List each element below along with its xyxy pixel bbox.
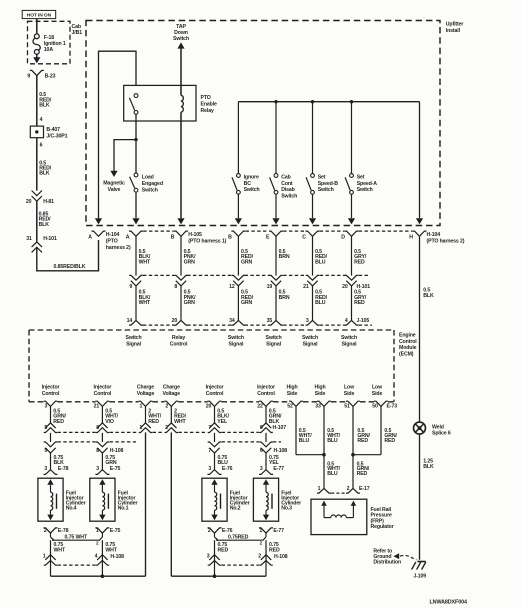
- charge voltage wires down to buses: [145, 432, 147, 576]
- wires ECM pins to H-107 connector: [50, 406, 52, 423]
- svg-text:BLU: BLU: [315, 300, 326, 306]
- svg-text:Cab: Cab: [281, 175, 290, 181]
- svg-text:BLU: BLU: [315, 259, 326, 265]
- svg-text:3: 3: [45, 404, 48, 410]
- svg-text:9: 9: [27, 74, 30, 80]
- svg-text:31: 31: [26, 236, 32, 242]
- svg-text:4: 4: [40, 117, 43, 123]
- low side merge jumper: [353, 454, 381, 456]
- junction on bus: [311, 100, 314, 103]
- wire relay contact to H-104 pin A (left drop): [99, 51, 137, 218]
- svg-text:J-109: J-109: [413, 573, 426, 579]
- inline connector pin 21: [306, 275, 320, 280]
- wire branch to magnetic valve: [114, 140, 136, 171]
- svg-text:Relay: Relay: [201, 108, 214, 114]
- connector E-17 pins 1 and 2: [317, 488, 331, 493]
- svg-text:RED: RED: [53, 419, 64, 425]
- weld splice 6: [414, 422, 426, 434]
- svg-text:7: 7: [208, 425, 211, 431]
- svg-text:Switch: Switch: [228, 335, 244, 341]
- connector E-17 dash: [331, 492, 346, 494]
- wires H-108 to injector connectors: [50, 453, 52, 470]
- svg-text:High: High: [314, 385, 325, 391]
- svg-text:BLK: BLK: [39, 103, 50, 109]
- svg-text:B: B: [228, 234, 232, 240]
- svg-text:7: 7: [208, 448, 211, 454]
- svg-text:5: 5: [44, 425, 47, 431]
- svg-text:GRN: GRN: [241, 300, 253, 306]
- svg-text:22: 22: [257, 404, 263, 410]
- wire relay switch to junction: [135, 114, 137, 173]
- fuel injector No.2 internals: [211, 479, 217, 485]
- svg-text:33: 33: [315, 404, 321, 410]
- svg-text:Speed-A: Speed-A: [357, 181, 378, 187]
- relay coil: [181, 95, 183, 112]
- connector H-108 dashes: [58, 441, 96, 443]
- Fuel Rail Pressure FRP Regulator box: [311, 499, 367, 534]
- Set Speed-B Switch: [311, 174, 315, 178]
- svg-text:6: 6: [260, 425, 263, 431]
- wire B-23 down to B-407: [36, 76, 38, 127]
- svg-text:Engaged: Engaged: [142, 181, 163, 187]
- connector pin A at x=136.0: [129, 231, 143, 236]
- svg-text:Control: Control: [257, 391, 275, 397]
- svg-text:GRN: GRN: [184, 259, 196, 265]
- arrow into connector: [272, 218, 279, 224]
- dashed pointer to ground wire: [400, 556, 417, 560]
- svg-text:BLU: BLU: [327, 471, 338, 477]
- svg-text:Weld: Weld: [432, 424, 444, 430]
- arrow to magnetic valve: [110, 171, 117, 177]
- svg-text:H-105: H-105: [188, 232, 202, 238]
- svg-text:BLK: BLK: [423, 464, 434, 470]
- svg-text:BLK: BLK: [423, 293, 434, 299]
- svg-text:Switch: Switch: [173, 36, 189, 42]
- svg-text:4: 4: [95, 553, 98, 559]
- connector H-107 chevrons: [45, 423, 55, 428]
- connector pin A at x=98.5: [92, 231, 106, 236]
- svg-text:Control: Control: [42, 391, 60, 397]
- svg-text:GRN: GRN: [241, 259, 253, 265]
- svg-text:Control: Control: [170, 342, 188, 348]
- svg-text:HOT IN ON: HOT IN ON: [27, 12, 52, 18]
- arrow into connector: [309, 218, 316, 224]
- svg-text:Disab: Disab: [281, 187, 295, 193]
- svg-text:Injector: Injector: [257, 385, 275, 391]
- svg-text:RED: RED: [148, 419, 159, 425]
- svg-text:E-77: E-77: [273, 528, 284, 534]
- svg-text:YEL: YEL: [217, 419, 228, 425]
- svg-text:10A: 10A: [44, 47, 54, 53]
- svg-text:E-78: E-78: [58, 528, 69, 534]
- injector connectors top: [44, 470, 58, 475]
- svg-text:52: 52: [287, 404, 293, 410]
- svg-text:Module: Module: [399, 345, 417, 351]
- svg-text:2: 2: [347, 486, 350, 492]
- svg-text:0.75RED: 0.75RED: [228, 535, 249, 541]
- svg-text:2: 2: [165, 404, 168, 410]
- inline connector pin 19: [269, 275, 283, 280]
- wire down and right to H-104 pin A: [37, 240, 99, 271]
- svg-text:H: H: [409, 234, 413, 240]
- svg-text:Low: Low: [344, 385, 355, 391]
- inline connector pin 9: [129, 275, 143, 280]
- fuel injector cylinder No.3 box: [253, 478, 278, 521]
- svg-text:J-105: J-105: [357, 318, 370, 324]
- connector body dashes row 275: [143, 274, 174, 276]
- svg-text:Charge: Charge: [137, 385, 154, 391]
- svg-text:H-101: H-101: [43, 236, 57, 242]
- svg-text:Switch: Switch: [302, 335, 318, 341]
- svg-text:H-81: H-81: [43, 199, 54, 205]
- injector ground bus group 2: [171, 575, 266, 577]
- connector H-107 dashes: [58, 431, 96, 433]
- connector pin B at x=181.0: [174, 231, 188, 236]
- svg-text:3: 3: [260, 466, 263, 472]
- svg-text:21: 21: [303, 284, 309, 290]
- svg-text:8: 8: [96, 448, 99, 454]
- svg-text:BLK: BLK: [39, 222, 50, 228]
- connector pin C at x=312.5: [306, 231, 320, 236]
- svg-text:No.1: No.1: [118, 506, 129, 512]
- connector H-108 chevrons: [50, 433, 52, 442]
- wire relay coil to H-105 pin B: [180, 112, 182, 218]
- Ignore BC Switch: [237, 174, 241, 178]
- svg-text:14: 14: [127, 318, 133, 324]
- svg-text:1: 1: [259, 528, 262, 534]
- inline connector pin 12: [232, 275, 246, 280]
- svg-text:Side: Side: [372, 391, 383, 397]
- junction at magnetic valve branch: [134, 138, 137, 141]
- junction on bus: [350, 100, 353, 103]
- svg-text:WHT: WHT: [139, 300, 151, 306]
- wire load switch to H-105 pin A: [135, 192, 137, 218]
- svg-text:WHT: WHT: [105, 547, 117, 553]
- connector J-105 pin 4: [345, 320, 359, 325]
- injector ground bus group 1: [51, 575, 146, 577]
- Load Engaged Switch: [134, 173, 138, 177]
- svg-text:50: 50: [372, 404, 378, 410]
- svg-text:3: 3: [207, 553, 210, 559]
- svg-text:WHT: WHT: [139, 259, 151, 265]
- connector J-105 pin 20: [174, 320, 188, 325]
- ECM bottom dashed edge: [29, 401, 44, 403]
- svg-text:H-104: H-104: [427, 232, 441, 238]
- connector body dashes row 325: [143, 324, 174, 326]
- svg-text:B-23: B-23: [45, 74, 56, 80]
- svg-text:Control: Control: [399, 339, 417, 345]
- svg-text:Magnetic: Magnetic: [103, 181, 125, 187]
- svg-text:Upfitter: Upfitter: [446, 22, 464, 28]
- HOT IN ON label box: [22, 10, 56, 18]
- svg-text:21: 21: [94, 404, 100, 410]
- svg-text:A: A: [126, 234, 130, 240]
- svg-text:Side: Side: [287, 391, 298, 397]
- svg-text:BRN: BRN: [279, 254, 290, 260]
- svg-text:H-107: H-107: [273, 425, 287, 431]
- svg-text:High: High: [286, 385, 297, 391]
- svg-text:3: 3: [96, 466, 99, 472]
- svg-text:Enable: Enable: [201, 102, 218, 108]
- wire from HOT IN ON to fuse box: [36, 19, 38, 34]
- svg-text:8: 8: [96, 425, 99, 431]
- svg-text:Switch: Switch: [357, 187, 373, 193]
- arrow into H-105 pin B: [177, 218, 184, 224]
- svg-text:3: 3: [306, 318, 309, 324]
- svg-text:BLU: BLU: [327, 438, 338, 444]
- svg-text:H-108: H-108: [110, 448, 124, 454]
- PTO Enable Relay box: [124, 85, 196, 121]
- svg-text:E-76: E-76: [222, 528, 233, 534]
- svg-text:Side: Side: [315, 391, 326, 397]
- svg-text:Side: Side: [344, 391, 355, 397]
- wire bus to Set Speed-A Switch: [351, 102, 353, 174]
- svg-text:Ignore: Ignore: [244, 175, 259, 181]
- svg-text:E-75: E-75: [110, 528, 121, 534]
- arrow to ground distribution: [393, 553, 399, 559]
- svg-text:2: 2: [258, 553, 261, 559]
- svg-text:Relay: Relay: [172, 335, 185, 341]
- arrow into connector: [348, 218, 355, 224]
- ground symbol J-109: [417, 561, 425, 563]
- svg-text:Signal: Signal: [266, 342, 282, 348]
- fuel injector No.3 internals: [263, 479, 269, 485]
- fuel injector No.1 internals: [99, 479, 105, 485]
- svg-text:1: 1: [140, 404, 143, 410]
- fuse box Cab J/B1 (dashed): [28, 21, 71, 64]
- svg-text:E-76: E-76: [222, 466, 233, 472]
- wire Cab Cont Disab Switch to connector: [275, 194, 277, 218]
- svg-text:RED: RED: [218, 547, 229, 553]
- jumper wire group 1 0.75 WHT: [51, 537, 103, 540]
- svg-text:E-73: E-73: [387, 404, 398, 410]
- svg-text:Voltage: Voltage: [163, 391, 181, 397]
- svg-text:9: 9: [129, 284, 132, 290]
- svg-text:B-407: B-407: [46, 127, 60, 133]
- injector connectors bottom: [44, 528, 58, 533]
- wire H-81 to H-101: [36, 201, 38, 241]
- svg-text:Install: Install: [446, 28, 461, 34]
- svg-text:Set: Set: [318, 175, 326, 181]
- svg-text:A: A: [88, 234, 92, 240]
- connector return dashes: [58, 564, 96, 566]
- svg-text:WHT: WHT: [54, 547, 66, 553]
- fuel injector cylinder No.2 box: [202, 478, 227, 521]
- svg-text:E-75: E-75: [110, 466, 121, 472]
- svg-text:H-108: H-108: [274, 448, 288, 454]
- svg-text:Low: Low: [372, 385, 383, 391]
- svg-text:LNWA8DXF004: LNWA8DXF004: [430, 600, 467, 606]
- svg-text:No.3: No.3: [281, 506, 292, 512]
- svg-text:RED: RED: [354, 259, 365, 265]
- relay switch contact: [134, 94, 138, 98]
- svg-text:8: 8: [174, 284, 177, 290]
- svg-text:12: 12: [229, 284, 235, 290]
- wires inline connectors to J-105: [135, 286, 137, 321]
- wire bus to Ignore BC Switch: [237, 102, 239, 174]
- wire bus to Cab Cont Disab Switch: [275, 102, 277, 174]
- svg-text:2: 2: [208, 528, 211, 534]
- svg-text:20: 20: [26, 199, 32, 205]
- fuse F-18 Ignition 1 10A: [34, 34, 39, 39]
- svg-text:E-77: E-77: [273, 466, 284, 472]
- svg-text:D: D: [341, 234, 345, 240]
- junction on bus: [274, 100, 277, 103]
- wire Set Speed-A Switch to connector: [351, 194, 353, 218]
- svg-text:RED: RED: [384, 438, 395, 444]
- svg-text:(PTO harness 2): (PTO harness 2): [427, 239, 465, 245]
- svg-text:51: 51: [344, 404, 350, 410]
- svg-text:5: 5: [44, 448, 47, 454]
- svg-text:(ECM): (ECM): [399, 351, 414, 357]
- svg-text:No.4: No.4: [66, 506, 77, 512]
- Set Speed-A Switch: [350, 174, 354, 178]
- svg-text:GRN: GRN: [184, 300, 196, 306]
- svg-text:35: 35: [267, 318, 273, 324]
- svg-text:RED: RED: [354, 300, 365, 306]
- svg-text:4: 4: [345, 318, 348, 324]
- svg-text:Injector: Injector: [206, 385, 224, 391]
- fuel injector No.4 internals: [47, 479, 53, 485]
- svg-text:6: 6: [40, 142, 43, 148]
- wire bus corner down to H-104 pin H: [419, 102, 421, 219]
- connector H-108 return chevrons: [45, 555, 55, 560]
- connector body dashes row 231: [143, 230, 174, 232]
- svg-text:Switch: Switch: [142, 188, 158, 194]
- wires high side pins down: [295, 406, 297, 454]
- svg-text:(PTO harness 1): (PTO harness 1): [188, 239, 226, 245]
- arrow up to TAP Down Switch: [177, 42, 184, 48]
- svg-text:Set: Set: [357, 175, 365, 181]
- svg-text:1: 1: [139, 425, 142, 431]
- inline connector pin 8: [174, 275, 188, 280]
- svg-text:Signal: Signal: [303, 342, 319, 348]
- svg-text:J/B1: J/B1: [72, 30, 83, 36]
- jumper wire group 2 0.75RED: [215, 537, 267, 540]
- svg-text:Injector: Injector: [42, 385, 60, 391]
- svg-text:3: 3: [44, 466, 47, 472]
- svg-text:Valve: Valve: [108, 187, 121, 193]
- connector J-105 pin 14: [129, 320, 143, 325]
- connector B-23 pin 9: [30, 70, 44, 75]
- arrow into connector B-23: [33, 57, 40, 63]
- svg-text:1: 1: [96, 528, 99, 534]
- connector H-81 pin 20: [32, 191, 42, 196]
- svg-text:RED: RED: [269, 547, 280, 553]
- wire B-407 down to H-81: [36, 138, 38, 191]
- svg-text:1: 1: [318, 486, 321, 492]
- svg-text:H-108: H-108: [274, 554, 288, 560]
- svg-text:E-78: E-78: [58, 466, 69, 472]
- svg-text:Speed-B: Speed-B: [318, 181, 339, 187]
- connector J-105 pin 3: [306, 320, 320, 325]
- svg-text:2: 2: [165, 425, 168, 431]
- arrow into connector: [235, 218, 242, 224]
- svg-text:20: 20: [206, 404, 212, 410]
- connector J-105 pin 35: [269, 320, 283, 325]
- svg-text:Control: Control: [94, 391, 112, 397]
- svg-text:BLK: BLK: [39, 171, 50, 177]
- svg-text:J/C-30P1: J/C-30P1: [46, 134, 67, 140]
- svg-text:Regulator: Regulator: [371, 524, 394, 530]
- svg-text:PTO: PTO: [201, 95, 211, 101]
- connector pin E at x=276.0: [269, 231, 283, 236]
- svg-text:Engine: Engine: [399, 333, 416, 339]
- svg-text:Switch: Switch: [341, 335, 357, 341]
- connector pin H at x=419.5: [413, 231, 427, 236]
- svg-text:Switch: Switch: [126, 335, 142, 341]
- fuel injector cylinder No.1 box: [90, 478, 115, 521]
- svg-text:0.75 WHT: 0.75 WHT: [65, 535, 88, 541]
- svg-text:H-108: H-108: [110, 554, 124, 560]
- svg-text:E-17: E-17: [359, 486, 370, 492]
- svg-text:Control: Control: [206, 391, 224, 397]
- svg-text:VIO: VIO: [105, 419, 114, 425]
- svg-text:RED: RED: [357, 471, 368, 477]
- wires low side pins down: [352, 406, 354, 488]
- Engine Control Module ECM dashed box: [29, 329, 394, 331]
- svg-text:H-104: H-104: [106, 232, 120, 238]
- svg-text:Cont: Cont: [281, 181, 293, 187]
- svg-text:WHT: WHT: [174, 419, 186, 425]
- svg-text:Switch: Switch: [281, 193, 297, 199]
- Cab Cont Disab Switch: [274, 174, 278, 178]
- fuel injector cylinder No.4 box: [38, 478, 63, 521]
- svg-text:harness 2): harness 2): [106, 245, 131, 251]
- arrow into H-104 pin H: [416, 218, 423, 224]
- svg-text:BRN: BRN: [279, 295, 290, 301]
- inline connector pin 20: [345, 275, 359, 280]
- svg-text:No.2: No.2: [230, 506, 241, 512]
- connector pin B at x=238.4: [231, 231, 245, 236]
- svg-text:Switch: Switch: [266, 335, 282, 341]
- wires connector row to inline connectors: [135, 236, 137, 275]
- wire splice to ground: [419, 434, 421, 560]
- wire TAP arrow to relay coil: [180, 48, 182, 95]
- svg-text:Splice 6: Splice 6: [432, 430, 451, 436]
- svg-text:RED: RED: [357, 438, 368, 444]
- svg-text:2: 2: [44, 528, 47, 534]
- arrow into H-105 pin A: [132, 218, 139, 224]
- ground bus for switches: [238, 101, 419, 103]
- FRP regulator internals: [321, 501, 327, 506]
- svg-text:19: 19: [267, 284, 273, 290]
- svg-text:Distribution: Distribution: [373, 560, 401, 566]
- svg-text:Switch: Switch: [244, 187, 260, 193]
- svg-text:Injector: Injector: [94, 385, 112, 391]
- wires jumpers down to buses: [50, 540, 52, 576]
- svg-text:Signal: Signal: [342, 342, 358, 348]
- svg-text:C: C: [302, 234, 306, 240]
- svg-text:0.85RED/BLK: 0.85RED/BLK: [54, 264, 86, 270]
- svg-text:34: 34: [229, 318, 235, 324]
- svg-text:3: 3: [208, 466, 211, 472]
- wire bus to Set Speed-B Switch: [312, 102, 314, 174]
- svg-text:Signal: Signal: [126, 342, 142, 348]
- Upfitter Install dashed box: [86, 21, 440, 226]
- wire Ignore BC Switch to connector: [237, 194, 239, 218]
- ECM output pins: [44, 401, 58, 406]
- svg-text:B: B: [171, 234, 175, 240]
- svg-text:Signal: Signal: [228, 342, 244, 348]
- connector J-105 pin 34: [231, 320, 245, 325]
- svg-text:(PTO: (PTO: [106, 239, 118, 245]
- svg-text:20: 20: [172, 318, 178, 324]
- connector pin D at x=351.5: [345, 231, 359, 236]
- wire fuse to arrow: [36, 54, 38, 58]
- svg-text:6: 6: [260, 448, 263, 454]
- junction block B-407 J/C-30P1: [30, 126, 43, 138]
